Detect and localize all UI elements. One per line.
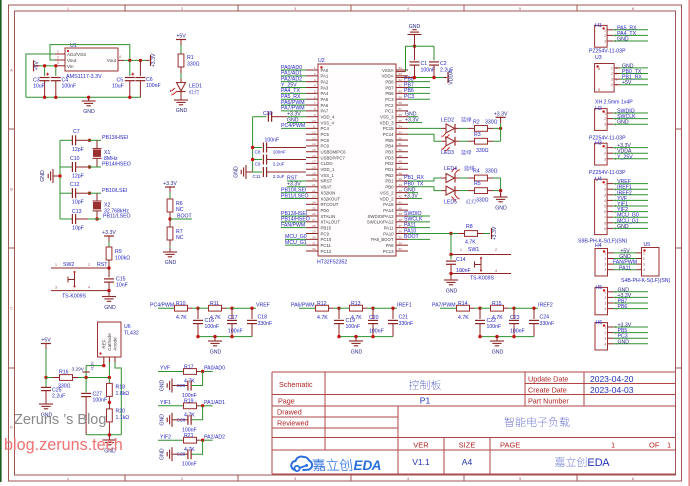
junction output node xyxy=(371,307,374,310)
net label SWDIO xyxy=(404,211,430,217)
svg-text:PA4: PA4 xyxy=(321,91,329,96)
svg-text:PB10/LSEI: PB10/LSEI xyxy=(102,188,127,194)
svg-text:16: 16 xyxy=(312,154,316,158)
junction R21 output xyxy=(201,439,204,442)
svg-text:Vout: Vout xyxy=(107,58,117,63)
svg-text:Vout: Vout xyxy=(67,58,77,63)
svg-text:C12: C12 xyxy=(70,182,80,188)
svg-text:54: 54 xyxy=(399,125,403,129)
svg-text:61: 61 xyxy=(399,84,403,88)
wire +3.3V to R6 xyxy=(169,187,171,199)
svg-text:PA8: PA8 xyxy=(386,243,394,248)
ground below C25 xyxy=(39,400,53,419)
connector H4 xyxy=(595,243,637,276)
svg-text:R9: R9 xyxy=(115,249,122,255)
svg-text:3: 3 xyxy=(604,193,606,197)
net label PB8 xyxy=(404,76,430,82)
svg-text:PA14: PA14 xyxy=(383,208,394,213)
net label BOOT at PA9_BOOT xyxy=(404,234,430,240)
resistor R15 4.7K xyxy=(480,301,514,321)
resistor R20 1.1kohm xyxy=(107,402,130,434)
resistor R21 4.7K xyxy=(184,433,213,453)
svg-text:4: 4 xyxy=(495,269,497,273)
power net +3.3V flag at VDD_4 xyxy=(287,112,306,118)
net label SWCLK xyxy=(404,217,430,223)
resistor R9 100kohm xyxy=(106,247,130,262)
svg-text:GND: GND xyxy=(446,289,458,295)
net label IREF1 output xyxy=(397,302,412,308)
svg-text:+5V: +5V xyxy=(176,34,186,40)
svg-text:R5: R5 xyxy=(474,181,481,187)
svg-text:C20: C20 xyxy=(369,315,379,321)
svg-text:PC13: PC13 xyxy=(383,249,394,254)
wire LED2 to R2 xyxy=(456,127,469,129)
junction C1 top xyxy=(413,45,416,48)
svg-text:VER: VER xyxy=(413,441,429,450)
svg-text:42: 42 xyxy=(399,195,403,199)
svg-text:330Ω: 330Ω xyxy=(485,119,498,125)
svg-text:3: 3 xyxy=(643,263,645,267)
svg-text:1: 1 xyxy=(460,248,462,252)
svg-text:45: 45 xyxy=(399,177,403,181)
junction output C6 xyxy=(139,59,142,62)
junction VDDA C1 xyxy=(413,76,416,79)
wire R1 to LED1 xyxy=(180,67,182,79)
svg-text:VDD_3: VDD_3 xyxy=(380,120,394,125)
svg-text:2023-04-20: 2023-04-20 xyxy=(590,374,634,384)
svg-text:PC1: PC1 xyxy=(385,109,394,114)
svg-text:100nF: 100nF xyxy=(182,462,197,468)
power net +5V flag TL432 xyxy=(41,338,51,344)
junction rail left xyxy=(337,335,340,338)
svg-text:2023-04-03: 2023-04-03 xyxy=(590,385,634,395)
svg-text:C2: C2 xyxy=(440,61,447,67)
svg-text:13: 13 xyxy=(312,136,316,140)
svg-text:GND: GND xyxy=(160,414,166,426)
svg-text:Y_25V: Y_25V xyxy=(617,154,633,160)
svg-text:100nF: 100nF xyxy=(369,329,384,335)
wire ADJ pin to ground rail xyxy=(26,54,55,97)
svg-text:RTCOUT: RTCOUT xyxy=(321,202,339,207)
svg-text:PC3: PC3 xyxy=(385,97,394,102)
svg-text:BOOT: BOOT xyxy=(177,214,193,220)
svg-text:R14: R14 xyxy=(458,301,468,307)
svg-text:LED2: LED2 xyxy=(441,117,454,123)
svg-text:R15: R15 xyxy=(492,301,502,307)
title text Schematic xyxy=(279,380,313,389)
junction C12 X2 xyxy=(88,192,91,195)
svg-text:43: 43 xyxy=(399,189,403,193)
svg-text:64: 64 xyxy=(399,66,403,70)
capacitor C30 100nF xyxy=(253,111,287,144)
wire Vout pin top loop to output node xyxy=(50,45,130,61)
power net +3.3V flag at VBAT xyxy=(287,182,306,188)
svg-text:30: 30 xyxy=(312,236,316,240)
wire R5 to ground node xyxy=(493,190,501,192)
net label PA10 xyxy=(404,228,430,234)
connector H6 xyxy=(595,320,648,350)
svg-text:1: 1 xyxy=(57,50,59,54)
watermark Zeruns Blog xyxy=(14,412,106,428)
svg-text:VSSA: VSSA xyxy=(382,68,394,73)
junction R19 output xyxy=(201,404,204,407)
svg-text:1: 1 xyxy=(605,290,607,294)
svg-text:LED3: LED3 xyxy=(441,150,454,156)
junction rail cathode xyxy=(108,376,111,379)
switch SW1 TS-K009S xyxy=(451,247,511,282)
svg-text:4: 4 xyxy=(611,83,613,87)
svg-text:YVF: YVF xyxy=(160,366,170,372)
junction rail mid xyxy=(371,335,374,338)
svg-text:C10: C10 xyxy=(70,156,80,162)
svg-text:NRST: NRST xyxy=(321,179,333,184)
svg-text:C18: C18 xyxy=(258,315,268,321)
svg-text:4.7K: 4.7K xyxy=(317,315,328,321)
svg-text:blog.zeruns.tech: blog.zeruns.tech xyxy=(4,436,123,454)
junction C4 top xyxy=(54,64,57,67)
connector U3 XH 2.5mm 1x4P xyxy=(595,55,648,106)
ground flag at VSS_4 xyxy=(287,117,306,123)
svg-text:Anode: Anode xyxy=(113,337,118,351)
svg-text:Update Date: Update Date xyxy=(528,375,568,384)
svg-text:PB6: PB6 xyxy=(618,304,628,310)
svg-text:C9: C9 xyxy=(255,161,261,166)
svg-text:PC4/PWM: PC4/PWM xyxy=(281,123,305,129)
svg-text:VDDA: VDDA xyxy=(382,74,394,79)
svg-text:3: 3 xyxy=(611,78,613,82)
wire R6 to BOOT node xyxy=(169,212,171,219)
svg-text:R10: R10 xyxy=(176,301,186,307)
junction rail gnd xyxy=(354,335,357,338)
ground below LED1 xyxy=(174,96,188,114)
svg-text:S9B-PH-K-S(LF)(SN): S9B-PH-K-S(LF)(SN) xyxy=(578,239,628,245)
svg-text:48: 48 xyxy=(399,160,403,164)
power net +3.3V flag at VDD_2 xyxy=(404,193,422,199)
svg-text:U1: U1 xyxy=(70,43,77,49)
svg-text:PA9_BOOT: PA9_BOOT xyxy=(371,237,394,242)
svg-text:U3: U3 xyxy=(595,55,602,61)
svg-text:2: 2 xyxy=(605,331,607,335)
capacitor C7 12pF xyxy=(60,129,88,153)
svg-text:2: 2 xyxy=(604,34,606,38)
svg-text:PC9: PC9 xyxy=(321,231,330,236)
title text Drawed xyxy=(277,408,302,417)
svg-text:C30: C30 xyxy=(263,111,273,117)
logo JLC EDA cloud xyxy=(291,457,312,472)
svg-text:PD3: PD3 xyxy=(385,155,394,160)
ground crystal bus xyxy=(40,169,60,183)
svg-text:15: 15 xyxy=(312,148,316,152)
ground YVF row xyxy=(160,379,179,393)
svg-text:4.7K: 4.7K xyxy=(458,315,469,321)
svg-text:PD0: PD0 xyxy=(321,208,330,213)
capacitor C23 100nF xyxy=(509,308,525,336)
resistor R11 4.7K xyxy=(198,301,232,321)
svg-text:YIF2: YIF2 xyxy=(160,434,171,440)
net label PB13/HSEI at XTALIN xyxy=(281,211,307,217)
resistor R19 4.7K xyxy=(184,399,213,419)
svg-text:E: E xyxy=(587,457,594,469)
net label PA1/AD1 at MCU pin 2 xyxy=(281,71,306,77)
wire +5V to rail xyxy=(45,344,47,378)
svg-text:2: 2 xyxy=(604,152,606,156)
svg-text:Schematic: Schematic xyxy=(279,380,313,389)
capacitor C5 10uF xyxy=(112,60,135,97)
title text Update Date xyxy=(528,375,568,384)
right pink page edge line xyxy=(688,0,690,486)
svg-text:PA0/AD0: PA0/AD0 xyxy=(204,366,225,372)
junction output cap xyxy=(391,307,394,310)
title block table xyxy=(272,372,675,474)
capacitor C13 10pF xyxy=(60,209,88,232)
svg-text:PA1: PA1 xyxy=(321,74,329,79)
svg-text:3: 3 xyxy=(604,157,606,161)
junction gnd C4 xyxy=(54,96,57,99)
wire R7 to ground xyxy=(169,240,171,252)
junction gnd C5 xyxy=(128,96,131,99)
power net +3.3V flag above R9 xyxy=(102,230,116,236)
svg-text:1: 1 xyxy=(604,146,606,150)
wire to C26 xyxy=(192,372,203,386)
svg-text:330nF: 330nF xyxy=(399,321,414,327)
svg-text:4: 4 xyxy=(643,268,645,272)
power net +3.3V flag LED group1 xyxy=(494,111,508,128)
svg-text:PD2: PD2 xyxy=(385,161,394,166)
svg-text:GND: GND xyxy=(495,206,507,212)
svg-text:GND: GND xyxy=(617,120,629,126)
svg-text:60: 60 xyxy=(399,90,403,94)
svg-text:P1: P1 xyxy=(420,396,431,406)
junction rail mid xyxy=(512,335,515,338)
svg-text:PB1_RX: PB1_RX xyxy=(404,175,424,181)
title value 嘉立创EDA xyxy=(555,457,610,469)
wire R4 to group2 vertical xyxy=(493,178,501,191)
svg-text:VSS_2: VSS_2 xyxy=(380,190,394,195)
svg-text:8: 8 xyxy=(604,221,606,225)
svg-text:GND: GND xyxy=(176,108,188,114)
ground flag at VSS_2 xyxy=(404,187,418,193)
capacitor C27 100nF xyxy=(81,378,107,435)
title value 2023-04-20 xyxy=(590,374,634,384)
svg-text:USBDM/PC6: USBDM/PC6 xyxy=(321,150,347,155)
svg-text:PC3: PC3 xyxy=(404,94,414,100)
capacitor C21 330nF xyxy=(388,308,413,336)
svg-text:27: 27 xyxy=(312,218,316,222)
svg-text:2.2uF: 2.2uF xyxy=(273,161,285,166)
ground regulator xyxy=(82,97,96,115)
svg-text:R4: R4 xyxy=(473,169,480,175)
svg-text:59: 59 xyxy=(399,95,403,99)
svg-text:C11: C11 xyxy=(253,174,262,179)
svg-text:57: 57 xyxy=(399,107,403,111)
net label FAN/PWM at PB15 xyxy=(281,222,306,228)
svg-text:PB14/HSEO: PB14/HSEO xyxy=(102,162,131,168)
svg-text:2.2uF: 2.2uF xyxy=(273,174,285,179)
net label PC4/PWM input xyxy=(150,302,175,308)
svg-text:330Ω: 330Ω xyxy=(485,169,498,175)
svg-text:100nF: 100nF xyxy=(228,329,243,335)
svg-text:100nF: 100nF xyxy=(93,398,108,404)
svg-text:FAN/PWM: FAN/PWM xyxy=(281,222,305,228)
svg-text:52: 52 xyxy=(399,136,403,140)
svg-text:A: A xyxy=(10,68,13,73)
svg-text:100nF: 100nF xyxy=(487,324,502,330)
svg-text:44: 44 xyxy=(399,183,403,187)
svg-text:C8: C8 xyxy=(255,149,261,154)
svg-text:GND: GND xyxy=(165,260,177,266)
svg-text:CLDO: CLDO xyxy=(321,161,334,166)
svg-text:PA11: PA11 xyxy=(384,225,394,230)
left green page edge line xyxy=(0,0,2,482)
svg-text:4.7K: 4.7K xyxy=(184,413,195,419)
svg-text:100nF: 100nF xyxy=(205,324,220,330)
svg-text:38: 38 xyxy=(399,218,403,222)
svg-text:PB8: PB8 xyxy=(385,79,394,84)
svg-text:6: 6 xyxy=(604,210,606,214)
junction R17 output xyxy=(201,370,204,373)
svg-text:PA6/PWM: PA6/PWM xyxy=(291,302,315,308)
regulator U1 AMS1117-3.3V xyxy=(55,43,124,80)
net label PB11/LSEO at X32KOUT xyxy=(281,193,309,199)
capacitor C6 100nF xyxy=(135,60,160,97)
svg-text:USBDP/PC7: USBDP/PC7 xyxy=(321,155,346,160)
svg-text:51: 51 xyxy=(399,142,403,146)
svg-text:VSS_1: VSS_1 xyxy=(321,173,335,178)
svg-text:C24: C24 xyxy=(540,315,550,321)
wire R9 to RST node xyxy=(108,260,110,268)
svg-text:H4: H4 xyxy=(595,243,602,249)
svg-text:GND: GND xyxy=(160,448,166,460)
wire TL432 bottom rail xyxy=(86,434,121,436)
svg-text:3: 3 xyxy=(605,337,607,341)
svg-text:4.7K: 4.7K xyxy=(176,315,187,321)
LED2 blue-green xyxy=(441,117,471,139)
capacitor C19 100nF xyxy=(334,308,360,336)
svg-text:5: 5 xyxy=(604,205,606,209)
svg-text:1: 1 xyxy=(667,441,671,450)
svg-text:55: 55 xyxy=(399,119,403,123)
junction VDDA C2 xyxy=(432,76,435,79)
junction SW1 top xyxy=(449,253,452,256)
capacitor C4 100nF xyxy=(51,66,76,98)
svg-text:Drawed: Drawed xyxy=(277,408,302,417)
svg-text:H2: H2 xyxy=(595,106,602,112)
LED5 red lamp xyxy=(442,186,477,206)
svg-text:C7: C7 xyxy=(73,129,80,135)
svg-text:PD1: PD1 xyxy=(385,167,394,172)
svg-text:26: 26 xyxy=(312,212,316,216)
svg-text:PB3: PB3 xyxy=(385,150,394,155)
net label MCU_G0 at PC10 xyxy=(285,234,307,240)
capacitor C29 100nF xyxy=(177,449,197,468)
svg-text:VDD_2: VDD_2 xyxy=(380,196,394,201)
svg-text:R18: R18 xyxy=(116,385,126,391)
junction output node xyxy=(230,307,233,310)
title text Part Number xyxy=(528,397,569,406)
svg-text:VSS_3: VSS_3 xyxy=(380,115,394,120)
resistor R5 330ohm xyxy=(468,181,493,204)
net label PB6 xyxy=(404,88,430,94)
svg-text:PA3: PA3 xyxy=(321,85,329,90)
svg-text:GND: GND xyxy=(40,170,46,182)
junction output C5 xyxy=(128,59,131,62)
svg-text:+3.3V: +3.3V xyxy=(102,230,116,236)
svg-text:39: 39 xyxy=(399,212,403,216)
wire VDDA node xyxy=(396,77,444,79)
svg-text:100nF: 100nF xyxy=(346,324,361,330)
net label PB13/HSEI xyxy=(102,135,128,141)
svg-text:100nF: 100nF xyxy=(62,84,77,90)
wire LED1 to ground xyxy=(180,92,182,101)
capacitor C24 330nF xyxy=(529,308,554,336)
svg-text:12: 12 xyxy=(312,130,316,134)
svg-text:4: 4 xyxy=(605,268,607,272)
net label PA7/PWM input xyxy=(432,302,457,308)
title text Reviewed xyxy=(277,419,309,428)
svg-text:RST: RST xyxy=(97,262,108,268)
svg-text:Part Number: Part Number xyxy=(528,397,569,406)
svg-text:H5: H5 xyxy=(596,285,603,291)
svg-text:63: 63 xyxy=(399,72,403,76)
svg-text:46: 46 xyxy=(399,171,403,175)
net label Y_25V at MCU pin 4 xyxy=(281,82,306,88)
svg-text:LED5: LED5 xyxy=(444,200,457,206)
svg-text:XTALIN: XTALIN xyxy=(321,214,336,219)
title value 控制板 xyxy=(409,380,441,390)
svg-text:XTALOUT: XTALOUT xyxy=(321,220,341,225)
net label PA7/PWM at MCU pin 8 xyxy=(281,106,306,112)
ground below SW2 xyxy=(102,291,116,311)
svg-text:R11: R11 xyxy=(210,301,219,307)
wire R2 to +3.3V xyxy=(493,127,501,129)
svg-text:58: 58 xyxy=(399,101,403,105)
net label PC3 xyxy=(404,94,430,100)
resistor R18 1.8kohm xyxy=(107,378,130,403)
svg-text:29: 29 xyxy=(312,230,316,234)
svg-text:2: 2 xyxy=(611,72,613,76)
capacitor C22 100nF xyxy=(475,308,501,336)
svg-text:1: 1 xyxy=(605,326,607,330)
svg-text:PA1/AD1: PA1/AD1 xyxy=(204,400,225,406)
svg-text:3: 3 xyxy=(604,40,606,44)
power input net +5V flag xyxy=(34,60,41,71)
svg-text:+5V: +5V xyxy=(41,338,51,344)
svg-text:B: B xyxy=(10,187,13,192)
net label PA11 xyxy=(404,222,430,228)
wire decoupling bus vertical xyxy=(252,117,254,172)
junction gnd bus xyxy=(58,174,61,177)
svg-text:A4: A4 xyxy=(462,457,473,467)
svg-text:Page: Page xyxy=(278,397,295,406)
svg-text:Zeruns ’s Blog: Zeruns ’s Blog xyxy=(14,412,106,428)
svg-text:2: 2 xyxy=(495,248,497,252)
svg-text:PAGE: PAGE xyxy=(500,441,520,450)
svg-text:Cathode: Cathode xyxy=(107,333,112,351)
svg-text:22: 22 xyxy=(312,189,316,193)
svg-text:X32KOUT: X32KOUT xyxy=(321,196,341,201)
junction C8 xyxy=(251,146,254,149)
LED3 blue-green xyxy=(441,137,471,157)
shunt reference U6 TL432 xyxy=(98,322,139,366)
svg-text:GND: GND xyxy=(492,350,504,356)
ground flag at VSS_3 xyxy=(405,112,418,118)
capacitor C9 2.2uF xyxy=(253,155,306,167)
svg-text:R8: R8 xyxy=(466,224,473,230)
wire LED4 to R4 xyxy=(456,177,469,179)
net flag 3.29V xyxy=(71,361,94,373)
svg-text:Vin: Vin xyxy=(67,64,74,69)
svg-text:1: 1 xyxy=(55,263,57,267)
